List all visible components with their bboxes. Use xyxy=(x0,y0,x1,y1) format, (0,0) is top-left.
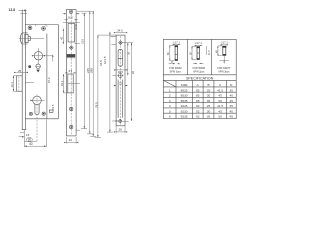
svg-text:45: 45 xyxy=(218,109,222,113)
svg-text:92: 92 xyxy=(131,70,135,74)
svg-text:40: 40 xyxy=(229,94,233,98)
svg-text:24: 24 xyxy=(69,138,73,142)
svg-text:15.4: 15.4 xyxy=(47,77,51,83)
svg-text:92: 92 xyxy=(196,115,200,119)
svg-text:50: 50 xyxy=(218,99,222,103)
svg-text:288: 288 xyxy=(90,68,94,73)
svg-text:13.8: 13.8 xyxy=(9,8,16,12)
svg-text:SIZE: SIZE xyxy=(181,83,188,87)
svg-text:35: 35 xyxy=(207,115,211,119)
svg-text:9225: 9225 xyxy=(181,104,188,108)
svg-text:9235: 9235 xyxy=(181,115,188,119)
svg-text:8.5: 8.5 xyxy=(69,69,73,73)
svg-text:101.5: 101.5 xyxy=(103,56,107,64)
svg-text:78.5: 78.5 xyxy=(94,102,98,108)
svg-text:9230: 9230 xyxy=(181,109,188,113)
svg-text:92: 92 xyxy=(196,104,200,108)
svg-text:3: 3 xyxy=(169,99,171,103)
svg-text:SPECIFICATION: SPECIFICATION xyxy=(186,77,214,81)
svg-text:50: 50 xyxy=(218,115,222,119)
svg-text:30: 30 xyxy=(207,94,211,98)
svg-text:25: 25 xyxy=(18,69,22,73)
svg-text:6PIN 3pcs: 6PIN 3pcs xyxy=(218,70,230,73)
svg-text:5: 5 xyxy=(169,109,171,113)
svg-text:30: 30 xyxy=(28,138,32,142)
svg-text:13: 13 xyxy=(26,133,30,137)
svg-text:16.5: 16.5 xyxy=(67,16,73,20)
svg-text:1: 1 xyxy=(169,88,171,92)
svg-text:61.5: 61.5 xyxy=(51,104,55,110)
svg-text:45: 45 xyxy=(218,94,222,98)
svg-text:24.5: 24.5 xyxy=(74,24,78,30)
svg-text:216: 216 xyxy=(81,39,85,44)
svg-text:5PIN 3pcs: 5PIN 3pcs xyxy=(170,70,182,73)
svg-text:85: 85 xyxy=(196,94,200,98)
svg-text:6PIN 2pcs: 6PIN 2pcs xyxy=(193,70,205,73)
svg-text:41.5: 41.5 xyxy=(217,104,223,108)
svg-text:8525: 8525 xyxy=(181,88,188,92)
svg-text:40: 40 xyxy=(229,109,233,113)
svg-text:42: 42 xyxy=(60,36,64,40)
svg-text:2: 2 xyxy=(169,94,171,98)
svg-text:26: 26 xyxy=(119,128,123,132)
svg-text:25: 25 xyxy=(207,104,211,108)
svg-text:∅17.1: ∅17.1 xyxy=(195,41,203,45)
svg-text:8535: 8535 xyxy=(181,99,188,103)
svg-text:19.1: 19.1 xyxy=(60,80,64,86)
svg-text:85: 85 xyxy=(196,88,200,92)
svg-text:24.5: 24.5 xyxy=(117,29,123,33)
svg-text:85: 85 xyxy=(196,99,200,103)
svg-text:4: 4 xyxy=(169,104,171,108)
svg-text:35: 35 xyxy=(229,104,233,108)
svg-text:8530: 8530 xyxy=(181,94,188,98)
svg-text:35: 35 xyxy=(229,88,233,92)
svg-text:92: 92 xyxy=(196,109,200,113)
svg-text:30: 30 xyxy=(207,109,211,113)
svg-text:45: 45 xyxy=(229,99,233,103)
svg-text:21.5: 21.5 xyxy=(209,50,211,55)
svg-text:35: 35 xyxy=(207,99,211,103)
svg-text:∅17.1: ∅17.1 xyxy=(221,41,229,45)
svg-text:40: 40 xyxy=(29,142,33,146)
svg-text:36: 36 xyxy=(126,51,130,55)
svg-text:16.1: 16.1 xyxy=(10,82,14,88)
svg-text:41.5: 41.5 xyxy=(217,88,223,92)
svg-text:6: 6 xyxy=(169,115,171,119)
svg-text:25: 25 xyxy=(207,88,211,92)
svg-text:B: B xyxy=(207,83,209,87)
svg-text:45: 45 xyxy=(229,115,233,119)
